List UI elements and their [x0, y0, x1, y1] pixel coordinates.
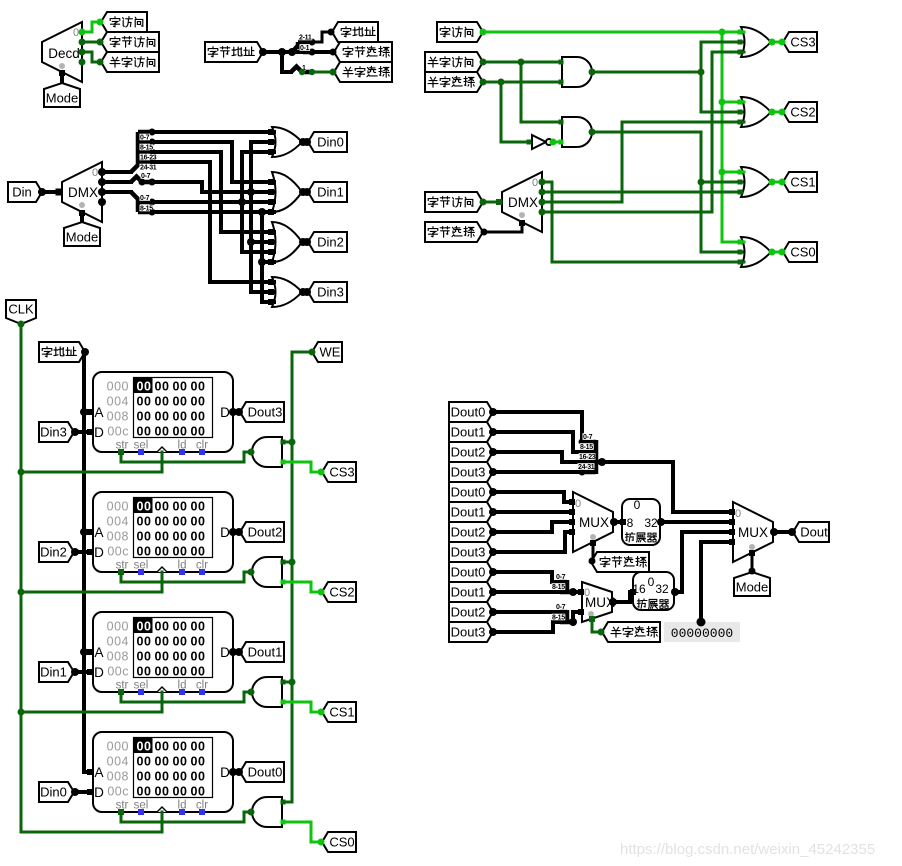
- wire Dout0 g3 to splitter F2a leg0: [493, 572, 560, 582]
- tunnel 字节选择 (F): [591, 552, 649, 572]
- wire Din2 to RAM D: [75, 550, 90, 554]
- tunnel 字访问 (A): [101, 12, 147, 32]
- wire net A0-7 to ORd1: [152, 130, 274, 134]
- svg-text:00: 00: [173, 650, 188, 664]
- tunnel Din3 (D): [308, 282, 347, 302]
- tunnel Mode (F): [734, 572, 770, 596]
- svg-text:00: 00: [173, 770, 188, 784]
- wire splitter leg 2-11 to 字地址: [312, 32, 331, 42]
- svg-text:Mode: Mode: [736, 580, 769, 595]
- svg-text:Din1: Din1: [40, 665, 67, 680]
- wire OR2 out to CS2: [771, 111, 782, 114]
- multiplexer MUX-F1: [573, 492, 613, 552]
- wire 字节访问 to DMX input: [483, 201, 501, 204]
- wire CLK rail: [21, 324, 162, 832]
- wire DMX(C) out3 net to OR1: [542, 52, 744, 212]
- svg-text:0: 0: [648, 575, 655, 589]
- svg-text:00: 00: [173, 395, 188, 409]
- svg-text:CS2: CS2: [790, 105, 815, 120]
- svg-text:D: D: [94, 785, 104, 800]
- tunnel Din1: [39, 662, 74, 682]
- svg-text:00: 00: [137, 650, 152, 664]
- decoder out3 dot: [79, 59, 86, 66]
- tunnel Dout0 (F g2): [449, 482, 493, 502]
- RAM block (Dout2): [93, 492, 233, 572]
- tunnel WE: [312, 342, 342, 362]
- wire RAM D out to Dout2: [233, 530, 239, 534]
- wire MUX-F3 out to Dout: [773, 530, 792, 534]
- wire clk branch (Dout2): [161, 572, 164, 592]
- svg-text:00: 00: [137, 770, 152, 784]
- wire ORd4 out to Din3: [302, 290, 307, 294]
- tunnel Din3: [39, 422, 74, 442]
- wire splitter leg 0-1 to 字节选择: [312, 51, 333, 54]
- svg-text:00: 00: [155, 740, 170, 754]
- DMX(D) select stub: [80, 212, 84, 221]
- tunnel Dout2 (F g3): [449, 602, 493, 622]
- svg-text:32: 32: [644, 516, 658, 530]
- svg-text:00c: 00c: [107, 785, 129, 799]
- svg-text:24-31: 24-31: [578, 464, 595, 471]
- svg-text:008: 008: [107, 770, 129, 784]
- demultiplexer DMX (C): [502, 172, 542, 232]
- wire ORd2 out to Din1: [302, 190, 307, 194]
- tunnel Dout2 (F g2): [449, 522, 493, 542]
- svg-text:CS2: CS2: [329, 585, 354, 600]
- svg-text:000: 000: [107, 620, 129, 634]
- svg-text:Dout2: Dout2: [451, 525, 486, 540]
- svg-text:WE: WE: [320, 345, 341, 360]
- svg-text:Din1: Din1: [317, 185, 344, 200]
- svg-text:00: 00: [155, 665, 170, 679]
- wire vertical x242 net: [242, 152, 274, 252]
- decoder Decd: [42, 22, 82, 82]
- tunnel Dout1 (F g3): [449, 582, 493, 602]
- multiplexer MUX-F3: [733, 502, 773, 562]
- svg-text:00: 00: [191, 755, 206, 769]
- svg-text:CS1: CS1: [329, 705, 354, 720]
- svg-text:8-15: 8-15: [552, 584, 565, 591]
- svg-text:Din3: Din3: [317, 285, 344, 300]
- svg-text:00: 00: [191, 410, 206, 424]
- svg-text:A: A: [94, 405, 103, 420]
- svg-text:MUX: MUX: [738, 525, 768, 540]
- wire Dout0 g2 to MUX-F1 in0: [493, 492, 572, 502]
- svg-text:Dout1: Dout1: [451, 585, 486, 600]
- wire AND out to str (Dout2): [121, 572, 252, 582]
- wire MUX-F2 out to extender E2: [612, 592, 632, 602]
- wire 字访问 net (bright): [483, 31, 744, 34]
- tunnel Dout2 (F g1): [449, 442, 493, 462]
- AND gate U3 (lower): [562, 117, 592, 147]
- svg-text:Din3: Din3: [40, 425, 67, 440]
- svg-text:0: 0: [575, 498, 581, 510]
- svg-text:0-7: 0-7: [556, 604, 566, 611]
- svg-text:00: 00: [155, 515, 170, 529]
- tunnel Din1 (D): [308, 182, 347, 202]
- splitter F2b (2x8 to 16): [560, 610, 573, 624]
- svg-text:D: D: [220, 405, 230, 420]
- svg-text:00: 00: [173, 740, 188, 754]
- svg-text:8-15: 8-15: [580, 444, 593, 451]
- wire Din3 to RAM D: [75, 430, 90, 434]
- svg-text:Din2: Din2: [317, 235, 344, 250]
- wire net A24-31 to ORd4: [152, 162, 274, 282]
- svg-text:A: A: [94, 645, 103, 660]
- tunnel 半字访问 (C): [425, 52, 483, 72]
- RAM block (Dout3): [93, 372, 233, 452]
- svg-text:00: 00: [137, 785, 152, 799]
- svg-text:00: 00: [137, 755, 152, 769]
- wire vertical x251 net: [251, 142, 274, 292]
- svg-text:00: 00: [137, 500, 152, 514]
- bit extender E1 (8 to 32): [622, 499, 660, 545]
- wire Dout2 g1 to splitter F1 leg2: [493, 452, 580, 462]
- tunnel CS1 (E): [322, 702, 356, 722]
- svg-text:00: 00: [137, 425, 152, 439]
- AND gate U1 (upper): [562, 57, 592, 87]
- OR gate Din0: [272, 127, 302, 157]
- svg-text:Dout3: Dout3: [451, 625, 486, 640]
- wire clk branch (Dout3): [161, 452, 164, 472]
- svg-text:CS3: CS3: [329, 465, 354, 480]
- svg-text:008: 008: [107, 530, 129, 544]
- svg-text:00: 00: [155, 620, 170, 634]
- tunnel CS3 (C): [783, 32, 817, 52]
- wire CS to AND (Dout3): [283, 462, 321, 472]
- svg-text:00: 00: [155, 755, 170, 769]
- svg-text:A: A: [94, 765, 103, 780]
- svg-text:0-7: 0-7: [140, 195, 150, 202]
- wire 字节地址 bus: [263, 50, 332, 54]
- wire net out2 leg0 (y202): [152, 200, 274, 204]
- wire Dout2 g2 to MUX-F1 in2: [493, 522, 572, 532]
- svg-text:00: 00: [137, 545, 152, 559]
- svg-text:A: A: [94, 525, 103, 540]
- svg-text:00000000: 00000000: [671, 626, 733, 641]
- wire OR4 out to CS0: [771, 251, 782, 254]
- svg-text:Din0: Din0: [317, 135, 344, 150]
- OR gate Din2: [272, 222, 302, 262]
- svg-text:CS0: CS0: [329, 835, 354, 850]
- svg-text:Din: Din: [12, 185, 32, 200]
- wire net A16-23 to ORd3: [152, 152, 274, 232]
- svg-text:Dout3: Dout3: [451, 545, 486, 560]
- wire ORd1 out to Din0: [302, 140, 307, 144]
- wire OR3 out to CS1: [771, 181, 782, 184]
- wire net out1(0-7) jog: [152, 182, 274, 192]
- svg-text:00: 00: [173, 635, 188, 649]
- svg-text:Dout0: Dout0: [451, 565, 486, 580]
- svg-text:00: 00: [191, 500, 206, 514]
- svg-text:D: D: [94, 425, 104, 440]
- svg-text:00: 00: [137, 410, 152, 424]
- svg-text:0: 0: [73, 27, 79, 39]
- svg-text:00: 00: [191, 395, 206, 409]
- tunnel Din: [8, 182, 42, 202]
- svg-text:CS0: CS0: [790, 245, 815, 260]
- svg-text:00: 00: [155, 770, 170, 784]
- MUX-F2 select stub: [592, 618, 601, 632]
- wire CLK branch row3: [21, 711, 162, 714]
- svg-text:004: 004: [107, 515, 129, 529]
- demultiplexer DMX (D): [62, 162, 102, 222]
- OR gate CS1: [741, 167, 771, 197]
- wire CS to AND (Dout1): [283, 702, 321, 712]
- svg-text:Dout0: Dout0: [451, 485, 486, 500]
- tunnel Dout3 (F g2): [449, 542, 493, 562]
- wire Dout2 g3 to splitter F2b leg0: [493, 610, 560, 614]
- wire RAM D out to Dout3: [233, 410, 239, 414]
- tunnel 半字选择 (F): [602, 622, 660, 642]
- tunnel 半字选择 (C): [425, 72, 483, 92]
- svg-text:Dout2: Dout2: [248, 525, 283, 540]
- svg-text:00: 00: [137, 515, 152, 529]
- wire CLK branch row2: [21, 591, 162, 594]
- wire RAM D out to Dout1: [233, 650, 239, 654]
- svg-text:00: 00: [173, 665, 188, 679]
- svg-text:0-7: 0-7: [141, 173, 151, 180]
- wire OR1 out to CS3: [771, 41, 782, 44]
- wire E2 out to MUX-F3 in2: [674, 532, 732, 592]
- svg-text:008: 008: [107, 410, 129, 424]
- svg-text:000: 000: [107, 380, 129, 394]
- wire MUX-F1 out to extender E1: [613, 520, 622, 524]
- svg-text:00: 00: [173, 785, 188, 799]
- svg-text:Dout3: Dout3: [451, 465, 486, 480]
- svg-text:Dout3: Dout3: [248, 405, 283, 420]
- wire Dout3 g2 to MUX-F1 in3: [493, 532, 572, 552]
- svg-text:https://blog.csdn.net/weixin_4: https://blog.csdn.net/weixin_45242355: [620, 841, 875, 858]
- svg-text:D: D: [94, 545, 104, 560]
- MUX-F1 select stub: [592, 542, 595, 561]
- svg-text:00: 00: [173, 545, 188, 559]
- svg-text:Dout1: Dout1: [451, 505, 486, 520]
- svg-text:Dout1: Dout1: [248, 645, 283, 660]
- svg-text:CLK: CLK: [8, 302, 34, 317]
- wire WE rail: [283, 352, 312, 802]
- svg-text:00: 00: [191, 785, 206, 799]
- wire Dout3 g3 to splitter F2b leg1: [493, 622, 560, 632]
- svg-text:00: 00: [191, 515, 206, 529]
- wire Dout1 g2 to MUX-F1 in1: [493, 510, 572, 514]
- tunnel 半字选择: [334, 62, 392, 82]
- svg-text:CS1: CS1: [790, 175, 815, 190]
- splitter B2 (bit 1): [291, 67, 312, 73]
- tunnel Din0 (D): [308, 132, 347, 152]
- svg-text:00: 00: [191, 530, 206, 544]
- OR gate CS3: [741, 27, 771, 57]
- svg-text:00: 00: [137, 395, 152, 409]
- svg-text:00: 00: [173, 425, 188, 439]
- tunnel Dout3 (F g1): [449, 462, 493, 482]
- wire clk branch (Dout1): [161, 692, 164, 712]
- tunnel CS3 (E): [322, 462, 356, 482]
- svg-text:MUX: MUX: [579, 515, 609, 530]
- svg-text:0: 0: [735, 508, 741, 520]
- tunnel Din0: [39, 782, 74, 802]
- tunnel Dout2: [240, 522, 284, 542]
- svg-text:00: 00: [137, 380, 152, 394]
- wire RAM D out to Dout0: [233, 770, 239, 774]
- wire DMX(D) out2 to splitter D3: [102, 190, 131, 194]
- wire Dout3 g1 to splitter F1 leg3: [493, 470, 580, 474]
- tunnel Dout0: [240, 762, 284, 782]
- splitter B1 (2-11 / 0-1): [292, 42, 312, 52]
- svg-text:000: 000: [107, 500, 129, 514]
- svg-text:0-7: 0-7: [583, 434, 593, 441]
- svg-text:00: 00: [155, 395, 170, 409]
- wire clk branch (Dout0): [161, 812, 164, 832]
- wire branch down to splitter B2: [282, 52, 291, 72]
- svg-text:00: 00: [155, 425, 170, 439]
- wire AND out to str (Dout0): [121, 812, 252, 822]
- svg-text:004: 004: [107, 755, 129, 769]
- svg-text:00: 00: [191, 770, 206, 784]
- svg-text:00: 00: [173, 620, 188, 634]
- tunnel CS0 (E): [322, 832, 356, 852]
- RAM block (Dout1): [93, 612, 233, 692]
- svg-text:DMX: DMX: [508, 195, 538, 210]
- tunnel Din2: [39, 542, 74, 562]
- wire DMX(C) out2 net to OR2: [542, 122, 744, 202]
- svg-text:0-7: 0-7: [140, 135, 150, 142]
- svg-text:004: 004: [107, 635, 129, 649]
- svg-text:00: 00: [191, 620, 206, 634]
- svg-text:00c: 00c: [107, 665, 129, 679]
- svg-text:0: 0: [532, 177, 538, 189]
- svg-text:Mode: Mode: [46, 91, 79, 106]
- decoder select stub: [60, 72, 64, 81]
- svg-text:00: 00: [155, 410, 170, 424]
- wire net A8-15 to ORd2: [152, 142, 274, 182]
- svg-text:00: 00: [173, 410, 188, 424]
- wire AND2 output net: [592, 132, 742, 252]
- svg-text:Dout: Dout: [800, 525, 828, 540]
- svg-text:16-23: 16-23: [579, 454, 596, 461]
- svg-text:00: 00: [137, 635, 152, 649]
- svg-text:D: D: [94, 665, 104, 680]
- wire ORd3 out to Din2: [302, 240, 307, 244]
- svg-text:00c: 00c: [107, 425, 129, 439]
- wire DMX(C) out1 net to OR3: [542, 191, 742, 194]
- svg-text:00: 00: [155, 530, 170, 544]
- svg-text:Dout2: Dout2: [451, 605, 486, 620]
- svg-text:00c: 00c: [107, 545, 129, 559]
- tunnel CS0 (C): [783, 242, 817, 262]
- AND gate write-enable (Dout1): [252, 677, 282, 707]
- tunnel 字节选择: [334, 42, 392, 62]
- svg-text:000: 000: [107, 740, 129, 754]
- tunnel 字地址 (E): [39, 342, 85, 362]
- splitter D1 (0-7/8-15/16-23/24-31): [131, 132, 152, 172]
- svg-text:008: 008: [107, 650, 129, 664]
- tunnel Dout3: [240, 402, 284, 422]
- svg-text:D: D: [220, 525, 230, 540]
- multiplexer MUX-F2: [582, 582, 612, 622]
- wire word-address bus rail: [84, 350, 85, 354]
- svg-text:00: 00: [173, 500, 188, 514]
- OR gate CS2: [741, 97, 771, 127]
- svg-text:00: 00: [191, 545, 206, 559]
- svg-text:00: 00: [191, 665, 206, 679]
- wire DMX(D) out0 to splitter D1: [102, 170, 131, 174]
- svg-text:00: 00: [191, 425, 206, 439]
- AND gate write-enable (Dout3): [252, 437, 282, 467]
- tunnel Dout1 (F g1): [449, 422, 493, 442]
- svg-text:00: 00: [173, 530, 188, 544]
- wire F1 combined to MUX-F3 in0: [602, 462, 732, 512]
- tunnel CS2 (E): [322, 582, 356, 602]
- wire splitter leg 1 to 半字选择: [312, 71, 333, 74]
- wire 半字选择 net: [483, 81, 561, 84]
- tunnel Dout0 (F g3): [449, 562, 493, 582]
- DMX(C) select stub: [484, 222, 522, 232]
- splitter D2 (0-7): [131, 177, 152, 183]
- svg-text:00: 00: [155, 380, 170, 394]
- svg-text:Mode: Mode: [66, 230, 99, 245]
- svg-text:Decd: Decd: [48, 46, 80, 61]
- tunnel Dout0 (F g1): [449, 402, 493, 422]
- wire CS to AND (Dout2): [283, 582, 321, 592]
- wire Dout0 g1 to splitter F1 leg0: [493, 412, 582, 442]
- wire E1 out to MUX-F3 in1: [660, 520, 732, 524]
- wire AND out to str (Dout3): [121, 452, 252, 462]
- svg-text:0: 0: [584, 587, 590, 599]
- RAM block (Dout0): [93, 732, 233, 812]
- MUX-F3 select stub: [751, 552, 754, 571]
- tunnel 字节地址: [205, 42, 263, 62]
- tunnel CS2 (C): [783, 102, 817, 122]
- svg-text:CS3: CS3: [790, 35, 815, 50]
- wire decoder out1 to 字节访问: [82, 41, 100, 44]
- tunnel 字节选择 (C): [425, 222, 483, 242]
- svg-text:00: 00: [137, 530, 152, 544]
- tunnel Dout3 (F g3): [449, 622, 493, 642]
- tunnel 半字访问 (A): [101, 52, 159, 72]
- OR gate Din3: [272, 277, 302, 307]
- svg-text:0: 0: [92, 167, 98, 179]
- wire Dout1 g1 to splitter F1 leg1: [493, 432, 580, 452]
- wire F2a combined to MUX-F2 in0: [573, 590, 581, 594]
- splitter F1 (combine 4x8 to 32): [580, 440, 602, 474]
- wire DMX(C) out0 net to OR4: [542, 182, 744, 262]
- svg-text:00: 00: [155, 500, 170, 514]
- tunnel 字节访问 (C): [425, 192, 483, 212]
- AND gate write-enable (Dout0): [252, 797, 282, 827]
- svg-text:Dout0: Dout0: [248, 765, 283, 780]
- tunnel 字地址: [332, 22, 378, 42]
- svg-text:00: 00: [191, 635, 206, 649]
- svg-text:D: D: [220, 645, 230, 660]
- splitter F2a (2x8 to 16): [560, 580, 573, 594]
- wire AND out to str (Dout1): [121, 692, 252, 702]
- wire 半字访问 net: [483, 61, 561, 64]
- svg-text:0-1: 0-1: [300, 45, 310, 52]
- svg-text:8-15: 8-15: [552, 615, 565, 622]
- tunnel Dout (F): [793, 522, 829, 542]
- bit extender E2 (16 to 32): [633, 572, 674, 610]
- svg-text:00: 00: [173, 755, 188, 769]
- svg-text:Dout1: Dout1: [451, 425, 486, 440]
- wire Din1 to RAM D: [75, 670, 90, 674]
- probe display 00000000: [664, 622, 740, 642]
- wire net out2 leg1 (y212): [152, 210, 274, 214]
- wire Dout1 g3 to splitter F2a leg1: [493, 590, 560, 594]
- OR gate Din1: [272, 172, 302, 212]
- wire decoder out0 to 字访问: [82, 22, 100, 32]
- tunnel CLK: [6, 300, 36, 324]
